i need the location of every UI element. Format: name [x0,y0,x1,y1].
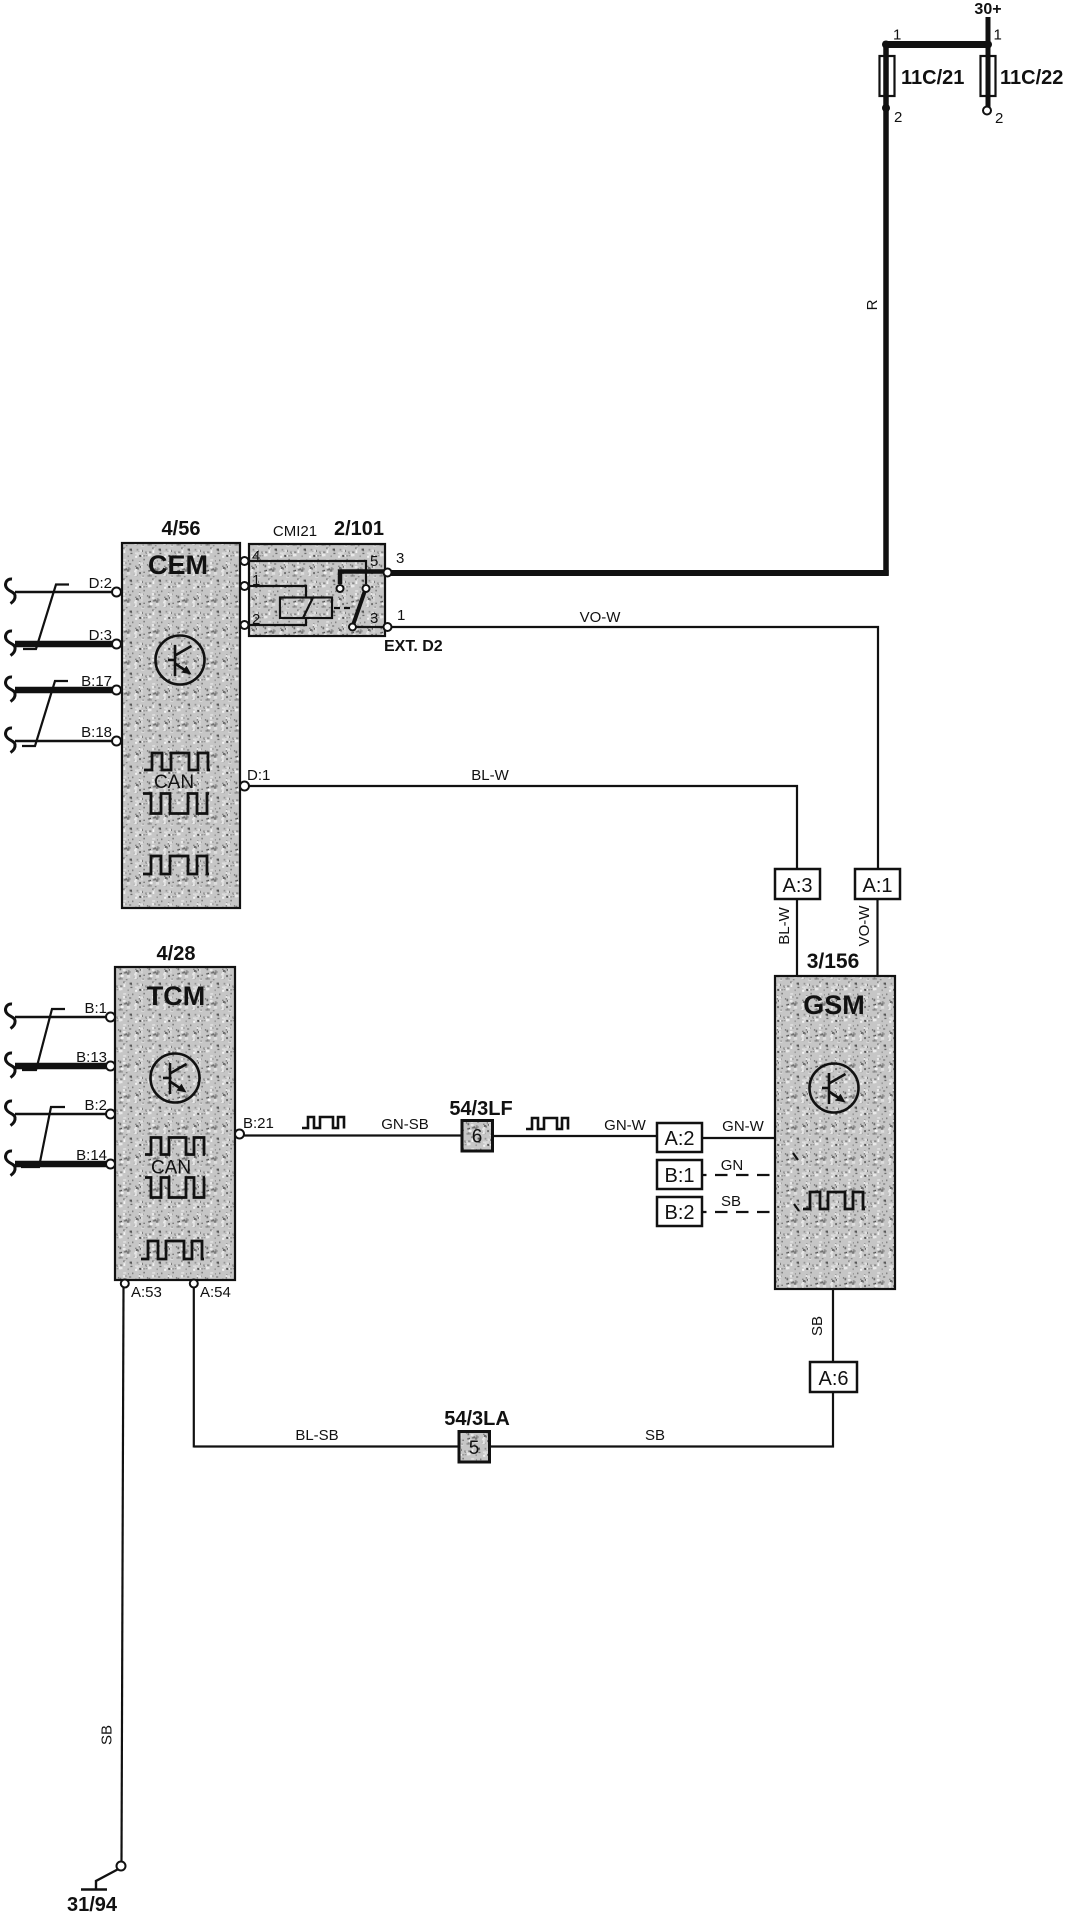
wire GN-W from splice to A:2 [493,1135,658,1137]
twisted pair slash B:17/B:18 [22,681,68,746]
GSM internal dashed tick upper [793,1153,798,1160]
node 1 label outside relay [397,607,405,624]
relay coil [280,598,332,619]
relay open contact (pin 5 side) [337,585,344,592]
svg-text:SB: SB [809,1316,826,1336]
svg-text:CAN: CAN [151,1158,191,1179]
splice 54/3LA id label [444,1408,510,1430]
wire A:2 to GSM [702,1137,776,1139]
transistor symbol inside CEM [156,636,205,685]
control module GSM 3/156 body [775,976,895,1289]
svg-text:GN-W: GN-W [604,1117,646,1134]
pin 1 label (11C/21) [893,27,901,44]
relay EXT. D2 label [384,638,443,655]
svg-text:A:2: A:2 [664,1128,694,1150]
svg-text:D:2: D:2 [89,575,112,592]
twisted pair slash B:1/B:13 [22,1009,65,1070]
wire label R (rotated) [864,299,881,310]
CAN text label in CEM [154,772,194,793]
pin B:13 terminal circle [106,1062,115,1071]
pin label B:13 [76,1049,107,1066]
relay 2/101 body [249,544,385,636]
CAN square-wave upper symbol in CEM [144,753,210,770]
CAN square-wave lower symbol in TCM [145,1178,205,1198]
square-wave bottom symbol in TCM [141,1241,204,1259]
connector A:3 [775,869,820,899]
relay fixed contact (pin 4 side) [363,585,370,592]
wire TCM pin B:2 [15,1113,106,1115]
svg-text:CAN: CAN [154,772,194,793]
wire SB from TCM A:53 to ground [122,1288,124,1862]
svg-text:5: 5 [370,553,378,570]
pin D:3 terminal circle [112,640,121,649]
svg-text:B:21: B:21 [243,1115,274,1132]
pin label A:54 [200,1284,231,1301]
fuse 11C/21 value label [901,67,964,89]
connector A:2 [657,1123,702,1152]
svg-text:A:6: A:6 [818,1368,848,1390]
wire A:3 to GSM top [796,899,798,976]
cable break squiggle B:14 [6,1151,16,1176]
cable break squiggle B:18 [6,728,16,753]
pin A:53 terminal circle [121,1280,129,1288]
relay pin 2 terminal [240,611,260,629]
svg-text:3: 3 [370,610,378,627]
pin label B:17 [81,673,112,690]
wire label SB (rotated, above A:6) [809,1316,826,1336]
dashed wire B:1 to GSM [702,1174,776,1176]
pin B:18 terminal circle [112,737,121,746]
wire label SB [721,1193,741,1210]
pin label D:3 [89,627,112,644]
svg-text:B:13: B:13 [76,1049,107,1066]
control module CEM 4/56 id label [162,518,201,540]
cable break squiggle D:3 [6,631,16,656]
relay pin 4 terminal [240,548,260,565]
svg-text:A:1: A:1 [862,875,892,897]
relay pin 5 terminal circle [384,569,392,577]
node 3 label outside relay [396,550,404,567]
wire label VO-W [580,609,622,626]
cable break squiggle B:17 [6,677,16,702]
square-wave bottom symbol in CEM [143,856,209,874]
pin B:14 terminal circle [106,1160,115,1169]
svg-text:1: 1 [893,27,901,44]
pin label B:2 [84,1097,107,1114]
svg-text:BL-SB: BL-SB [295,1427,338,1444]
twisted pair slash D:2/D:3 [23,585,69,650]
transistor symbol inside TCM [151,1054,200,1103]
control module CEM 4/56 body [122,543,240,908]
svg-text:3: 3 [396,550,404,567]
wire TCM pin B:1 [15,1016,106,1018]
wire pivot to relay pin 3 [356,626,385,628]
svg-text:A:3: A:3 [782,875,812,897]
svg-text:SB: SB [99,1725,116,1745]
wire label GN-W [604,1117,646,1134]
relay pin 3 label (inside) [370,610,378,627]
svg-text:GN-W: GN-W [722,1118,764,1135]
pin 2 label (11C/21) [894,109,902,126]
junction fuse 11C/21 pin 2 [882,104,890,112]
svg-text:6: 6 [472,1127,483,1148]
relay actuation dashed link [334,607,352,609]
relay pin 3 terminal circle [384,623,392,631]
wire 30+ feed vertical [986,17,991,107]
wire label SB (rotated, left) [99,1725,116,1745]
wire A:1 to GSM top [876,899,878,976]
wire R vertical from fuse 11C/21 [883,42,889,576]
cable break squiggle B:1 [6,1004,16,1029]
svg-text:11C/22: 11C/22 [1000,67,1063,89]
fuse 11C/21 [880,56,895,96]
cable break squiggle D:2 [6,579,16,604]
control module TCM name label [147,981,205,1011]
wire label SB (bottom) [645,1427,665,1444]
svg-text:2: 2 [894,109,902,126]
ground 31/94 id label [67,1894,118,1912]
svg-text:1: 1 [994,27,1002,44]
svg-text:BL-W: BL-W [776,906,793,944]
junction fuse 11C/22 pin 1 [984,41,992,49]
splice 54/3LF id label [449,1098,512,1120]
pin B:1 terminal circle [106,1013,115,1022]
wire relay pin 4 to fixed contact [249,561,366,584]
wire label BL-SB [295,1427,338,1444]
svg-text:R: R [864,299,881,310]
wire CEM pin B:17 (thick) [15,687,113,694]
relay pin 1 terminal [240,572,260,590]
svg-text:1: 1 [397,607,405,624]
svg-text:D:3: D:3 [89,627,112,644]
pin B:21 terminal circle on TCM [235,1130,244,1139]
control module TCM 4/28 body [115,967,235,1280]
svg-text:VO-W: VO-W [856,905,873,947]
cable break squiggle B:2 [6,1101,16,1126]
CAN square-wave lower symbol in CEM [143,794,209,814]
GSM internal dashed tick lower [794,1204,799,1211]
twisted pair slash B:2/B:14 [21,1107,65,1167]
svg-text:VO-W: VO-W [580,609,622,626]
CAN square-wave upper symbol in TCM [145,1138,205,1155]
connector B:1 [657,1160,702,1189]
wire CEM pin D:2 [15,591,113,593]
relay pin 5 label (inside) [370,553,378,570]
svg-text:A:53: A:53 [131,1284,162,1301]
svg-text:GSM: GSM [803,990,865,1020]
pin 1 label (11C/22) [994,27,1002,44]
svg-text:B:1: B:1 [664,1165,694,1187]
relay 2/101 id label [334,518,384,540]
pin label D:1 [247,767,270,784]
svg-text:5: 5 [469,1438,480,1459]
pin label B:14 [76,1147,107,1164]
svg-text:2: 2 [995,110,1003,127]
wire label BL-W (rotated) [776,906,793,944]
control module CEM name label [148,550,208,580]
wire A:54 down to bottom bus [193,1288,195,1448]
dashed wire B:2 to GSM [702,1211,776,1213]
wire TCM pin B:13 (thick) [15,1063,106,1070]
svg-text:BL-W: BL-W [471,767,509,784]
wire BL-W from CEM D:1 to A:3 [249,786,797,869]
connector A:6 [810,1362,857,1392]
wire relay pin 1 to coil [249,586,306,598]
svg-text:B:1: B:1 [84,1000,107,1017]
svg-text:31/94: 31/94 [67,1894,118,1912]
wire relay pin 5 internal (thick) to open contact [340,572,385,585]
wire label GN [721,1157,744,1174]
wire CEM pin D:3 (thick) [15,641,113,648]
svg-text:54/3LA: 54/3LA [444,1408,510,1430]
splice 54/3LA [459,1432,490,1463]
node 30+ supply label [974,1,1001,18]
svg-text:TCM: TCM [147,981,205,1011]
pin D:1 terminal circle on CEM [240,782,249,791]
connector A:1 [855,869,900,899]
pin label B:1 [84,1000,107,1017]
cable break squiggle B:13 [6,1053,16,1078]
wire label GN-W after A:2 [722,1118,764,1135]
svg-text:B:17: B:17 [81,673,112,690]
pin B:17 terminal circle [112,686,121,695]
pin A:54 terminal circle [190,1280,198,1288]
pin D:2 terminal circle [112,588,121,597]
relay switch pivot [349,624,356,631]
svg-text:CEM: CEM [148,550,208,580]
connector B:2 [657,1197,702,1226]
svg-text:4: 4 [252,548,260,565]
fuse 11C/22 value label [1000,67,1063,89]
control module GSM 3/156 id label [807,950,860,973]
svg-text:B:2: B:2 [664,1202,694,1224]
svg-text:4/28: 4/28 [157,943,196,965]
svg-text:54/3LF: 54/3LF [449,1098,512,1120]
pin label B:21 [243,1115,274,1132]
wire TCM pin B:14 (thick) [15,1161,106,1168]
relay CMI21 label [273,523,317,540]
pin label A:53 [131,1284,162,1301]
wire bottom horizontal BL-SB/SB [194,1445,834,1447]
wire CEM pin B:18 [15,740,113,742]
svg-text:11C/21: 11C/21 [901,67,964,89]
svg-text:3/156: 3/156 [807,950,860,973]
svg-text:EXT. D2: EXT. D2 [384,638,443,655]
wire relay pin 2 to coil [249,618,306,625]
wire R horizontal to relay pin 5 [390,570,889,576]
svg-text:B:14: B:14 [76,1147,107,1164]
wire label BL-W [471,767,509,784]
svg-text:SB: SB [721,1193,741,1210]
svg-text:GN-SB: GN-SB [381,1116,429,1133]
ground symbol 31/94 [81,1870,118,1890]
control module TCM 4/28 id label [157,943,196,965]
wire SB from GSM bottom [832,1289,834,1362]
pin B:2 terminal circle [106,1110,115,1119]
square-wave symbol in GSM [803,1192,865,1209]
svg-text:B:2: B:2 [84,1097,107,1114]
svg-text:4/56: 4/56 [162,518,201,540]
svg-text:SB: SB [645,1427,665,1444]
wire top bus horizontal [884,41,991,48]
wire label GN-SB [381,1116,429,1133]
transistor symbol inside GSM [810,1064,859,1113]
fuse 11C/22 [981,56,996,96]
relay switch arm [353,592,365,627]
wire GN-SB from TCM B:21 to splice 54/3LF [244,1134,462,1136]
node fuse 11C/22 pin 2 open terminal [983,107,991,115]
control module GSM name label [803,990,865,1020]
junction fuse 11C/21 pin 1 [882,41,890,49]
pin label B:18 [81,724,112,741]
svg-text:B:18: B:18 [81,724,112,741]
svg-text:CMI21: CMI21 [273,523,317,540]
svg-text:D:1: D:1 [247,767,270,784]
ground terminal circle [117,1862,126,1871]
splice 54/3LF [462,1121,493,1152]
svg-text:GN: GN [721,1157,744,1174]
svg-text:2/101: 2/101 [334,518,384,540]
pin label D:2 [89,575,112,592]
svg-text:A:54: A:54 [200,1284,231,1301]
wire VO-W from relay pin 3 to A:1 [392,627,879,869]
CAN text label in TCM [151,1158,191,1179]
square-wave symbol on GN-SB wire [302,1117,344,1129]
square-wave symbol on GN-W wire [526,1118,568,1130]
svg-text:30+: 30+ [974,1,1001,18]
pin 2 label (11C/22) [995,110,1003,127]
wire label VO-W (rotated) [856,905,873,947]
wire A:6 down to bottom bus [832,1392,834,1448]
